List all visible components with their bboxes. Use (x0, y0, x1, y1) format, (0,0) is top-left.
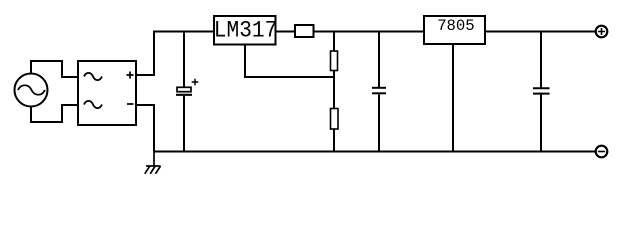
wire C1 to bottom rail (183, 96, 185, 152)
regulator U1 LM317 (214, 16, 277, 45)
terminal positive output (596, 26, 608, 38)
wire top rail segment 1 (153, 31, 214, 33)
wire R3 to bottom rail (333, 129, 335, 152)
terminal negative output (596, 146, 608, 158)
svg-text:LM317: LM317 (214, 18, 277, 44)
resistor R2 (331, 51, 338, 71)
wire source top to rectifier (31, 61, 78, 77)
AC source V1 (15, 74, 48, 107)
wire bottom rail (154, 151, 596, 153)
wire top rail to C3 (540, 32, 542, 88)
capacitor C1 electrolytic filter (176, 79, 198, 95)
capacitor C3 (533, 88, 550, 93)
wire top rail to C2 (378, 32, 380, 88)
AC mark top (84, 73, 102, 80)
AC mark bottom (84, 101, 102, 108)
bridge rectifier BR1 (78, 61, 136, 125)
wire top rail to R2 (333, 32, 335, 52)
svg-text:7805: 7805 (437, 17, 475, 35)
wire R2 to R3 (333, 71, 335, 109)
regulator U2 7805 (424, 16, 485, 44)
minus mark (127, 103, 134, 105)
resistor R1 (295, 25, 314, 37)
capacitor C2 (372, 88, 386, 94)
wire 7805 ground pin (452, 44, 454, 152)
plus mark (127, 72, 134, 79)
plus polarity mark (192, 79, 199, 86)
wire top rail segment 3 (314, 31, 425, 33)
wire top rail to C1 (183, 32, 185, 88)
wire rectifier plus output (136, 32, 154, 76)
wire C2 to bottom rail (378, 94, 380, 151)
wire C3 to bottom rail (540, 95, 542, 152)
wire top rail segment 4 (485, 31, 596, 33)
wire source bottom to rectifier (31, 105, 78, 122)
wire LM317 adjust pin (245, 45, 334, 78)
wire top rail segment 2 (276, 31, 296, 33)
wire rectifier minus output (136, 105, 154, 152)
ground (145, 152, 161, 174)
resistor R3 (331, 109, 339, 130)
